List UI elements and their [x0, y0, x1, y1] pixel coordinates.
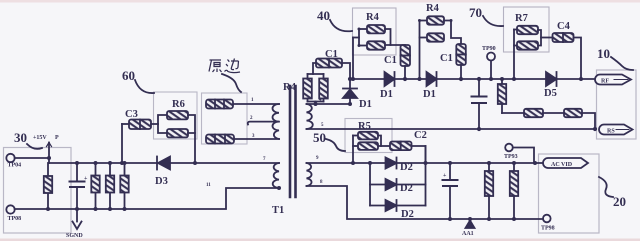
svg-text:60: 60: [122, 68, 135, 83]
svg-text:D2: D2: [400, 162, 413, 173]
capacitor C2: [390, 142, 412, 151]
leader 30: [27, 144, 42, 149]
resistor R (vertical, sec2 #2): [513, 163, 515, 171]
capacitor C4: [553, 33, 574, 42]
winding secondary lower (right): [307, 163, 312, 186]
svg-text:+: +: [443, 173, 447, 179]
winding primary upper (left): [273, 104, 280, 139]
svg-text:SGND: SGND: [66, 233, 83, 239]
capacitor C (electrolytic, left): [76, 163, 78, 181]
svg-text:D1: D1: [423, 89, 436, 100]
diode D1 (clamp, pointing up): [349, 79, 351, 89]
resistor R (horizontal #2): [564, 109, 582, 117]
svg-text:20: 20: [613, 194, 626, 209]
terminal TP04: [6, 154, 14, 162]
svg-text:D2: D2: [401, 209, 414, 220]
wire primary bottom rail: [15, 188, 277, 209]
svg-text:C1: C1: [325, 49, 338, 60]
wire D3 to transformer: [170, 162, 279, 164]
wire output rail 1: [350, 78, 385, 80]
node AA1: [466, 221, 475, 229]
svg-text:D2: D2: [400, 183, 413, 194]
resistor R4 pair (second): [419, 21, 421, 80]
connector RF: [595, 75, 631, 85]
svg-text:TP98: TP98: [541, 226, 555, 232]
wire center tap stub: [248, 122, 279, 125]
box 70: [504, 7, 550, 52]
leader 原边: [222, 74, 241, 92]
diode D5: [546, 72, 557, 86]
wire TL2 to winding: [234, 138, 279, 140]
svg-text:30: 30: [14, 130, 27, 145]
terminal TP98: [543, 215, 551, 223]
svg-text:C4: C4: [557, 21, 571, 32]
winding pin number ticks: [206, 98, 324, 188]
resistor R (vertical #4): [124, 163, 126, 176]
box 50 R5: [345, 119, 392, 153]
resistor R5 pair: [352, 136, 354, 164]
svg-text:D1: D1: [359, 99, 372, 110]
diode D1 (series #2): [427, 72, 437, 86]
leader 50: [326, 139, 345, 151]
wire rail primary top: [49, 162, 157, 164]
svg-text:P: P: [55, 135, 59, 141]
diode D2 #1: [386, 158, 397, 169]
svg-text:RS: RS: [607, 129, 615, 135]
connector RS: [599, 125, 633, 135]
wire divider chain to RS: [502, 112, 524, 114]
capacitor C (electrolytic, secondary2): [449, 163, 451, 180]
wire stub to AC connector: [535, 162, 546, 164]
diode D2 #3: [370, 205, 386, 207]
terminal TP93: [505, 144, 513, 152]
capacitor C3: [121, 124, 123, 163]
svg-text:50: 50: [313, 130, 326, 145]
svg-text:+15V: +15V: [33, 135, 47, 141]
svg-text:R4: R4: [283, 82, 297, 93]
winding secondary upper (right): [307, 104, 313, 129]
resistor R (vertical #3): [109, 163, 111, 176]
wire TP04 to +15V riser: [15, 157, 49, 159]
svg-text:D5: D5: [544, 88, 557, 99]
svg-text:AC VID: AC VID: [551, 162, 573, 168]
svg-text:TP08: TP08: [8, 216, 22, 222]
diode bus right: [425, 146, 427, 206]
capacitor C1 (mid, vertical): [401, 45, 411, 66]
resistor R4 parallel pair (vertical, near transformer): [308, 73, 324, 75]
resistor R (left, vertical): [47, 163, 49, 176]
svg-text:RF: RF: [601, 79, 609, 85]
svg-text:R6: R6: [172, 99, 185, 110]
resistor R (vertical, sec2 #1): [488, 163, 490, 171]
ground SGND: [76, 209, 78, 222]
resistor R7 pair in box 70: [513, 30, 515, 80]
diode D2 #2: [370, 184, 386, 186]
svg-text:C1: C1: [384, 55, 397, 66]
resistor R4 pair in box 40: [352, 38, 354, 80]
svg-text:TP93: TP93: [504, 154, 518, 160]
diode bus left: [369, 163, 371, 206]
capacitor C1 (snubber, horizontal): [313, 63, 316, 74]
wire rail 4 (secondary2 return): [307, 186, 544, 219]
svg-text:R4: R4: [366, 12, 380, 23]
resistor R (vertical #2): [95, 163, 97, 176]
diode D1 (series #1): [385, 72, 395, 86]
svg-text:+: +: [84, 176, 88, 182]
svg-text:AA1: AA1: [462, 231, 474, 237]
+15V riser wire with arrow: [48, 143, 50, 164]
element TL1: [206, 100, 233, 109]
svg-text:D3: D3: [155, 176, 168, 187]
leader 20: [599, 177, 613, 197]
leader 70: [483, 16, 503, 26]
terminal TP08: [6, 205, 14, 213]
element TL2: [206, 135, 234, 144]
svg-text:70: 70: [469, 5, 482, 20]
svg-text:40: 40: [317, 8, 330, 23]
wire winding to D1 node: [307, 103, 351, 105]
leader 10: [611, 57, 633, 70]
terminal TP90: [487, 53, 495, 61]
svg-text:R4: R4: [426, 3, 440, 14]
svg-text:T1: T1: [272, 205, 284, 216]
resistor R (vertical, after TP90): [501, 79, 503, 84]
resistor R6 (parallel pair): [158, 115, 167, 124]
svg-text:10: 10: [597, 46, 610, 61]
svg-text:TP04: TP04: [8, 163, 22, 169]
box 10: [597, 70, 637, 139]
leader 60: [135, 80, 154, 93]
wire rail 3: [307, 162, 386, 164]
core: [289, 86, 292, 197]
svg-text:D1: D1: [380, 89, 393, 100]
svg-text:R5: R5: [358, 121, 371, 132]
box 原边 TL: [202, 93, 248, 144]
wire rail 2 (secondary1 return): [307, 128, 596, 130]
box 60: [154, 92, 198, 139]
svg-text:R7: R7: [515, 13, 528, 24]
leader 40: [330, 20, 352, 31]
svg-text:C1: C1: [440, 53, 453, 64]
capacitor C1 (right, vertical): [456, 44, 466, 65]
box 30: [4, 148, 72, 234]
box 40: [353, 8, 397, 55]
capacitor C (filter, on rail1): [478, 79, 480, 96]
svg-text:C3: C3: [125, 109, 138, 120]
label 原边 (primary side) drawn strokes: [209, 59, 240, 73]
resistor R (horizontal #1): [524, 109, 543, 117]
svg-text:11: 11: [206, 183, 211, 188]
connector AC VID: [543, 158, 588, 168]
winding primary lower (left): [273, 163, 279, 188]
svg-text:TP90: TP90: [482, 46, 496, 52]
svg-text:C2: C2: [414, 130, 427, 141]
box 20: [539, 154, 600, 233]
wire TL1 to winding: [233, 103, 279, 105]
diode D3: [156, 157, 158, 170]
